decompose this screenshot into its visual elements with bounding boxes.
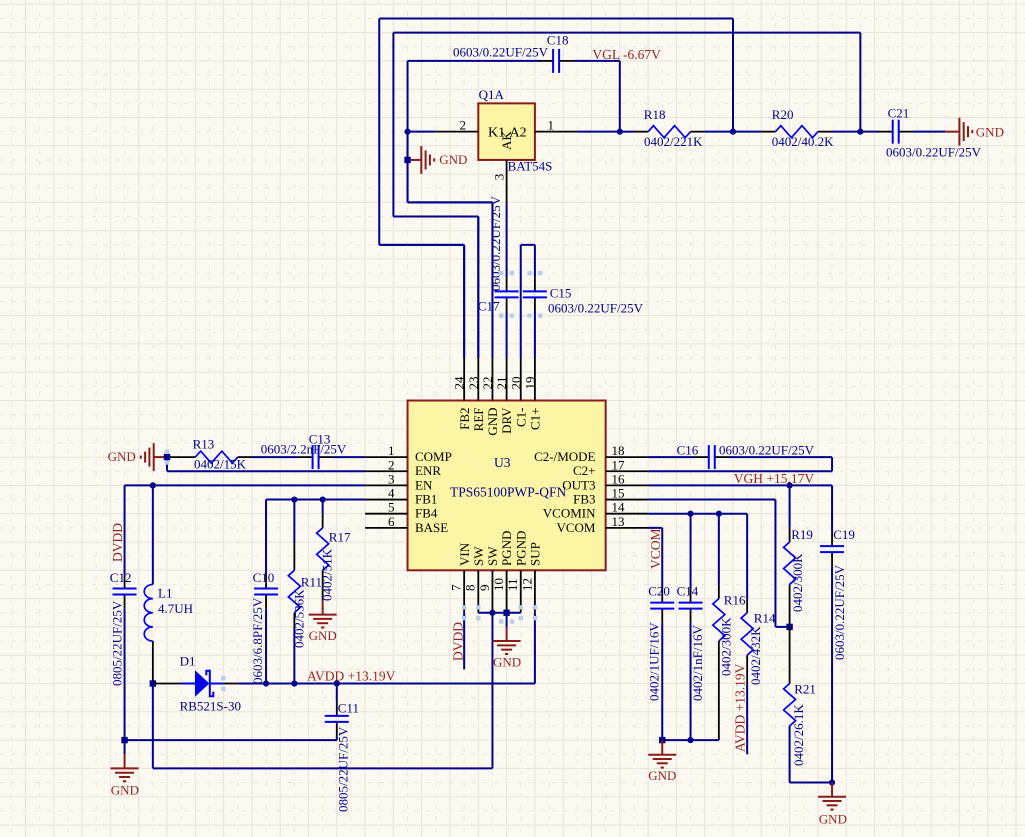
svg-text:FB3: FB3	[573, 491, 595, 506]
svg-text:GND: GND	[976, 125, 1004, 140]
svg-text:0603/0.22UF/25V: 0603/0.22UF/25V	[453, 45, 549, 60]
pin 11 PGND of U3	[505, 531, 528, 613]
svg-text:3: 3	[492, 174, 507, 181]
transistor Q1A (BAT54S dual diode block)	[478, 87, 552, 174]
net label AVDD +13.19V	[307, 669, 396, 684]
capacitor C11	[325, 684, 359, 813]
svg-text:C10: C10	[253, 570, 275, 585]
capacitor C12	[110, 570, 137, 686]
ground symbol at Q1A pin 2	[411, 146, 468, 174]
net label AVDD +13.19V vertical	[733, 663, 748, 752]
wire R13 to C13	[252, 456, 299, 458]
svg-text:DRV: DRV	[499, 407, 514, 434]
pin 21 DRV of U3	[494, 358, 514, 434]
svg-text:0603/0.22UF/25V: 0603/0.22UF/25V	[548, 300, 644, 315]
pin 6 BASE of U3	[365, 514, 448, 535]
wire D1 cathode to AVDD row	[210, 683, 535, 685]
wire EN junction down to L1	[152, 485, 154, 584]
svg-text:C2+: C2+	[573, 463, 596, 478]
svg-text:0402/1UF/16V: 0402/1UF/16V	[647, 622, 662, 701]
svg-text:22: 22	[480, 377, 495, 390]
pin 1 of Q1A	[535, 118, 620, 133]
svg-text:GND: GND	[485, 408, 500, 436]
pin 22 GND of U3	[480, 358, 500, 436]
svg-text:0603/0.22UF/25V: 0603/0.22UF/25V	[886, 145, 982, 160]
resistor R18	[634, 107, 705, 149]
svg-text:C17: C17	[478, 299, 500, 314]
junction R16/VCOMIN	[716, 511, 722, 517]
wire D1 anode	[153, 683, 195, 685]
pin 9 SW of U3	[477, 546, 500, 613]
svg-text:U3: U3	[494, 455, 511, 470]
svg-text:REF: REF	[471, 408, 486, 432]
wire FB1 row	[266, 499, 365, 501]
svg-text:GND: GND	[648, 768, 676, 783]
wire VCOMIN row	[648, 513, 747, 515]
svg-text:0402/51K: 0402/51K	[319, 548, 334, 601]
net label VGL -6.67V	[592, 47, 661, 62]
capacitor C10	[250, 500, 278, 684]
svg-text:GND: GND	[819, 812, 847, 827]
svg-text:C18: C18	[547, 33, 569, 48]
svg-text:VGH +15.17V: VGH +15.17V	[734, 471, 815, 486]
svg-text:BAT54S: BAT54S	[508, 158, 553, 173]
pin 12 SUP of U3	[519, 542, 542, 613]
svg-text:C19: C19	[833, 527, 855, 542]
svg-text:AVDD +13.19V: AVDD +13.19V	[307, 669, 396, 684]
junction R20/C21	[857, 129, 863, 135]
diode D1 RB521S-30	[180, 653, 241, 713]
wire ENR from junction	[167, 457, 365, 471]
wire C17 to pin 21	[506, 312, 508, 359]
wire VIN pin 7 stub	[463, 613, 465, 670]
svg-text:GND: GND	[108, 449, 136, 464]
svg-text:16: 16	[612, 471, 626, 486]
svg-text:8: 8	[463, 585, 478, 592]
svg-text:C15: C15	[550, 286, 572, 301]
pin 1 COMP of U3	[365, 443, 452, 464]
svg-text:VGL -6.67V: VGL -6.67V	[592, 47, 661, 62]
svg-text:0402/300K: 0402/300K	[790, 553, 805, 612]
svg-text:R17: R17	[329, 530, 351, 545]
wire to pin 24	[379, 245, 464, 358]
svg-text:SUP: SUP	[528, 542, 543, 566]
svg-text:C1+: C1+	[528, 408, 543, 431]
svg-text:OUT3: OUT3	[562, 477, 595, 492]
resistor R16	[713, 514, 746, 740]
wire bottom-left ground rail	[125, 739, 337, 741]
ground symbol left of R13	[108, 443, 167, 471]
svg-text:PGND: PGND	[513, 531, 528, 566]
svg-text:7: 7	[449, 584, 464, 591]
capacitor C13	[261, 432, 347, 470]
svg-text:C1-: C1-	[513, 408, 528, 428]
svg-text:R21: R21	[794, 681, 816, 696]
svg-text:15: 15	[612, 486, 625, 501]
wire GND column through Q1A pins	[407, 132, 409, 203]
svg-text:L1: L1	[158, 586, 172, 601]
svg-text:6: 6	[388, 514, 395, 529]
svg-text:13: 13	[612, 514, 625, 529]
net label DVDD at pin 7	[451, 622, 466, 661]
svg-text:VIN: VIN	[457, 542, 472, 566]
pin 4 FB1 of U3	[365, 486, 437, 507]
capacitor C14	[677, 514, 705, 740]
svg-text:GND: GND	[439, 152, 467, 167]
wire C12 to ground rail	[124, 609, 126, 740]
pin 2 of Q1A	[408, 118, 479, 133]
wire FB3 to R19/R21 node	[648, 500, 790, 627]
wire second top line to R20/C21 junction	[393, 33, 860, 358]
junction C20/rail	[659, 737, 665, 743]
junction R19/R21/FB3	[786, 624, 792, 630]
svg-text:21: 21	[494, 377, 509, 390]
junction C14/rail	[687, 737, 693, 743]
junction SW pin9	[489, 610, 495, 616]
svg-text:0603/0.22UF/25V: 0603/0.22UF/25V	[719, 443, 815, 458]
junction C10/AVDD	[263, 680, 269, 686]
svg-text:FB2: FB2	[457, 408, 472, 430]
pin 20 C1- of U3	[508, 358, 528, 427]
svg-text:VCOM: VCOM	[556, 520, 595, 535]
junction Q1A pin2 node	[404, 157, 410, 163]
wire EN row	[125, 484, 366, 486]
svg-text:0402/1nF/16V: 0402/1nF/16V	[690, 625, 705, 701]
svg-text:DVDD: DVDD	[110, 523, 125, 562]
svg-text:0603/0.22UF/25V: 0603/0.22UF/25V	[832, 564, 847, 660]
svg-text:SW: SW	[471, 546, 486, 566]
ground symbol bottom left	[111, 740, 139, 797]
svg-text:C20: C20	[648, 583, 670, 598]
pin 24 FB2 of U3	[452, 358, 472, 430]
junction R11/FB1	[291, 496, 297, 502]
wire SW loop pins 8,9	[153, 613, 521, 769]
svg-text:GND: GND	[111, 782, 139, 797]
pin 7 VIN of U3	[449, 542, 472, 612]
wire right ground rail	[662, 739, 719, 741]
wire C2-/MODE to C16	[648, 456, 695, 458]
svg-text:R13: R13	[193, 437, 215, 452]
inductor L1	[144, 584, 193, 641]
svg-text:C2-/MODE: C2-/MODE	[534, 449, 595, 464]
svg-text:24: 24	[452, 376, 467, 390]
junction PGND pins	[503, 610, 509, 616]
wire OUT3/VGH row	[648, 484, 832, 486]
svg-text:0402/432K: 0402/432K	[748, 626, 763, 685]
svg-text:5: 5	[388, 500, 395, 515]
pin 2 ENR of U3	[365, 457, 441, 478]
wire L1 to D1 node	[152, 641, 154, 683]
pin 13 VCOM of U3	[556, 514, 648, 535]
svg-text:17: 17	[612, 457, 626, 472]
svg-text:0805/22UF/25V: 0805/22UF/25V	[336, 726, 351, 812]
svg-text:VCOM: VCOM	[648, 528, 663, 569]
pin 5 FB4 of U3	[365, 500, 438, 521]
op-amp U3 TPS65100PWP-QFN body	[408, 401, 606, 571]
wire VGL top outer line to R18/R20 junction	[379, 18, 733, 358]
ground symbol below C20	[648, 740, 676, 783]
svg-text:0402/536K: 0402/536K	[292, 589, 307, 648]
pin 8 SW of U3	[463, 546, 486, 613]
svg-text:R16: R16	[724, 593, 746, 608]
svg-text:23: 23	[466, 377, 481, 390]
svg-text:0603/2.2nF/25V: 0603/2.2nF/25V	[261, 442, 347, 457]
pin 17 C2+ of U3	[573, 457, 648, 478]
junction L1/D1/SW	[150, 680, 156, 686]
wire C1- staple to C15	[521, 245, 535, 358]
wire DVDD column upper	[124, 485, 126, 574]
capacitor C17	[478, 195, 519, 313]
wire to pin 23	[393, 217, 478, 358]
svg-text:0805/22UF/25V: 0805/22UF/25V	[110, 600, 125, 686]
svg-text:VCOMIN: VCOMIN	[543, 506, 596, 521]
junction R17/FB1	[320, 496, 326, 502]
pin 14 VCOMIN of U3	[543, 500, 648, 521]
svg-text:SW: SW	[485, 546, 500, 566]
svg-text:R19: R19	[791, 527, 813, 542]
wire C18 feedback line from GND column	[408, 61, 620, 358]
junction C12/ground rail	[121, 737, 127, 743]
wire C16 loop back to C2+	[648, 457, 832, 471]
svg-text:1: 1	[548, 118, 555, 133]
svg-text:R14: R14	[754, 611, 776, 626]
svg-text:C16: C16	[677, 443, 699, 458]
ground symbol right of C21	[945, 118, 1004, 146]
svg-text:0402/300K: 0402/300K	[719, 617, 734, 676]
svg-text:0402/40.2K: 0402/40.2K	[772, 134, 834, 149]
wire C13 to pin 1	[333, 456, 365, 458]
svg-text:1: 1	[388, 443, 395, 458]
svg-text:Q1A: Q1A	[479, 87, 505, 102]
svg-text:20: 20	[508, 377, 523, 390]
pin 18 C2-/MODE of U3	[534, 443, 648, 464]
capacitor C16	[677, 443, 815, 470]
node hotspot markers	[165, 271, 543, 691]
svg-text:D1: D1	[180, 653, 196, 668]
wire VGL row segments	[620, 131, 945, 133]
junction EN/L1	[150, 482, 156, 488]
capacitor C21	[879, 106, 982, 160]
capacitor C20	[647, 583, 675, 740]
svg-text:12: 12	[519, 578, 534, 591]
svg-text:0402/15K: 0402/15K	[194, 457, 247, 472]
resistor R17	[317, 500, 351, 601]
svg-text:PGND: PGND	[499, 531, 514, 566]
capacitor C18	[453, 33, 573, 73]
pin 3 of Q1A	[492, 160, 507, 202]
svg-text:18: 18	[612, 443, 625, 458]
net label VGH +15.17V	[734, 471, 815, 486]
svg-text:ENR: ENR	[415, 463, 441, 478]
svg-text:DVDD: DVDD	[451, 622, 466, 661]
svg-text:C21: C21	[888, 106, 910, 121]
svg-text:4.7UH: 4.7UH	[158, 601, 193, 616]
junction GND/R13 node	[164, 454, 170, 460]
svg-text:2: 2	[460, 118, 467, 133]
svg-text:RB521S-30: RB521S-30	[180, 699, 241, 714]
resistor R20	[761, 107, 834, 149]
svg-text:0402/26.1K: 0402/26.1K	[791, 704, 806, 766]
svg-text:0603/6.8PF/25V: 0603/6.8PF/25V	[250, 597, 265, 684]
svg-text:FB1: FB1	[415, 491, 437, 506]
junction C11/AVDD	[334, 680, 340, 686]
pin 10 PGND of U3	[491, 531, 514, 613]
svg-text:0603/0.22UF/25V: 0603/0.22UF/25V	[488, 195, 503, 291]
svg-text:14: 14	[612, 500, 626, 515]
wire SUP pin 12 down to AVDD row	[534, 613, 536, 684]
resistor R14	[741, 514, 776, 755]
svg-text:COMP: COMP	[415, 449, 452, 464]
svg-text:0402/221K: 0402/221K	[644, 134, 703, 149]
svg-text:10: 10	[491, 578, 506, 591]
junction C14/VCOMIN	[687, 511, 693, 517]
svg-text:2: 2	[388, 457, 395, 472]
svg-text:11: 11	[505, 578, 520, 591]
pin 23 REF of U3	[466, 358, 486, 431]
net label DVDD	[110, 523, 125, 562]
svg-text:BASE: BASE	[415, 520, 448, 535]
svg-text:TPS65100PWP-QFN: TPS65100PWP-QFN	[450, 485, 567, 500]
pin 19 C1+ of U3	[522, 358, 542, 430]
pin 3 EN of U3	[365, 471, 433, 492]
svg-text:C11: C11	[338, 701, 359, 716]
capacitor C15	[523, 277, 644, 315]
ground symbol below R17	[309, 600, 337, 643]
junction R21/C19	[829, 779, 835, 785]
junction R11/AVDD	[291, 680, 297, 686]
junction VGL/R18	[617, 129, 623, 135]
svg-text:C14: C14	[677, 583, 699, 598]
wire Q1A pin3 to C17	[506, 202, 508, 277]
svg-text:AK: AK	[499, 131, 514, 150]
svg-text:4: 4	[388, 486, 395, 501]
junction R18/R20	[730, 129, 736, 135]
svg-text:C12: C12	[110, 570, 132, 585]
svg-text:R18: R18	[644, 107, 666, 122]
svg-text:GND: GND	[309, 628, 337, 643]
resistor R11	[288, 500, 322, 684]
svg-text:3: 3	[388, 471, 395, 486]
ground symbol bottom right	[818, 783, 847, 827]
junction Q1A pin2/wire	[404, 129, 410, 135]
resistor R13	[167, 437, 252, 472]
capacitor C19	[820, 485, 855, 782]
svg-text:EN: EN	[415, 477, 433, 492]
junction R19/VGH	[787, 482, 793, 488]
wire C15 to pin 19	[534, 312, 536, 359]
wire VCOM pin 13 to C20	[648, 528, 662, 589]
net label VCOM	[648, 528, 663, 569]
pin 15 FB3 of U3	[573, 486, 648, 507]
svg-text:9: 9	[477, 585, 492, 592]
svg-text:AVDD +13.19V: AVDD +13.19V	[733, 663, 748, 752]
svg-text:19: 19	[522, 377, 537, 390]
resistor R19	[784, 485, 813, 627]
svg-text:FB4: FB4	[415, 506, 438, 521]
resistor R21	[784, 627, 832, 783]
svg-text:GND: GND	[493, 655, 521, 670]
wire to pin 22	[408, 202, 493, 358]
ground symbol below PGND pins	[493, 613, 522, 670]
svg-text:R20: R20	[772, 107, 794, 122]
pin 16 OUT3 of U3	[562, 471, 648, 492]
